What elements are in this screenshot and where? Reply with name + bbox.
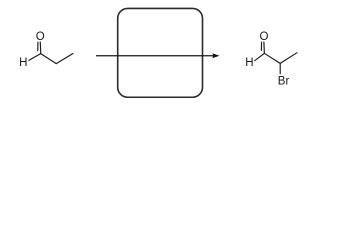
bond C2-Br [279, 63, 281, 73]
C1=O double bond main line [39, 42, 42, 54]
svg-text:O: O [36, 31, 45, 43]
bond H-C1 [255, 53, 264, 60]
bond H-C1 [29, 54, 41, 61]
bond C1-C2 [41, 54, 57, 64]
molecule: 2-bromopropanal (product) [255, 42, 297, 74]
bond C1-C2 [264, 53, 280, 63]
svg-text:O: O [260, 31, 269, 43]
C1=O double bond second line [260, 42, 262, 50]
C1=O double bond second line [37, 42, 39, 50]
svg-text:H: H [245, 57, 253, 69]
bond C2-C3 [56, 54, 73, 64]
svg-text:Br: Br [278, 75, 290, 87]
bond C2-C3 methyl [280, 53, 297, 64]
reaction arrow head [212, 53, 219, 58]
svg-text:H: H [19, 57, 27, 69]
reaction condition box [118, 8, 203, 97]
C1=O double bond main line [263, 42, 265, 53]
reaction arrow shaft [96, 55, 214, 57]
molecule: propanal (reactant) [29, 42, 73, 64]
